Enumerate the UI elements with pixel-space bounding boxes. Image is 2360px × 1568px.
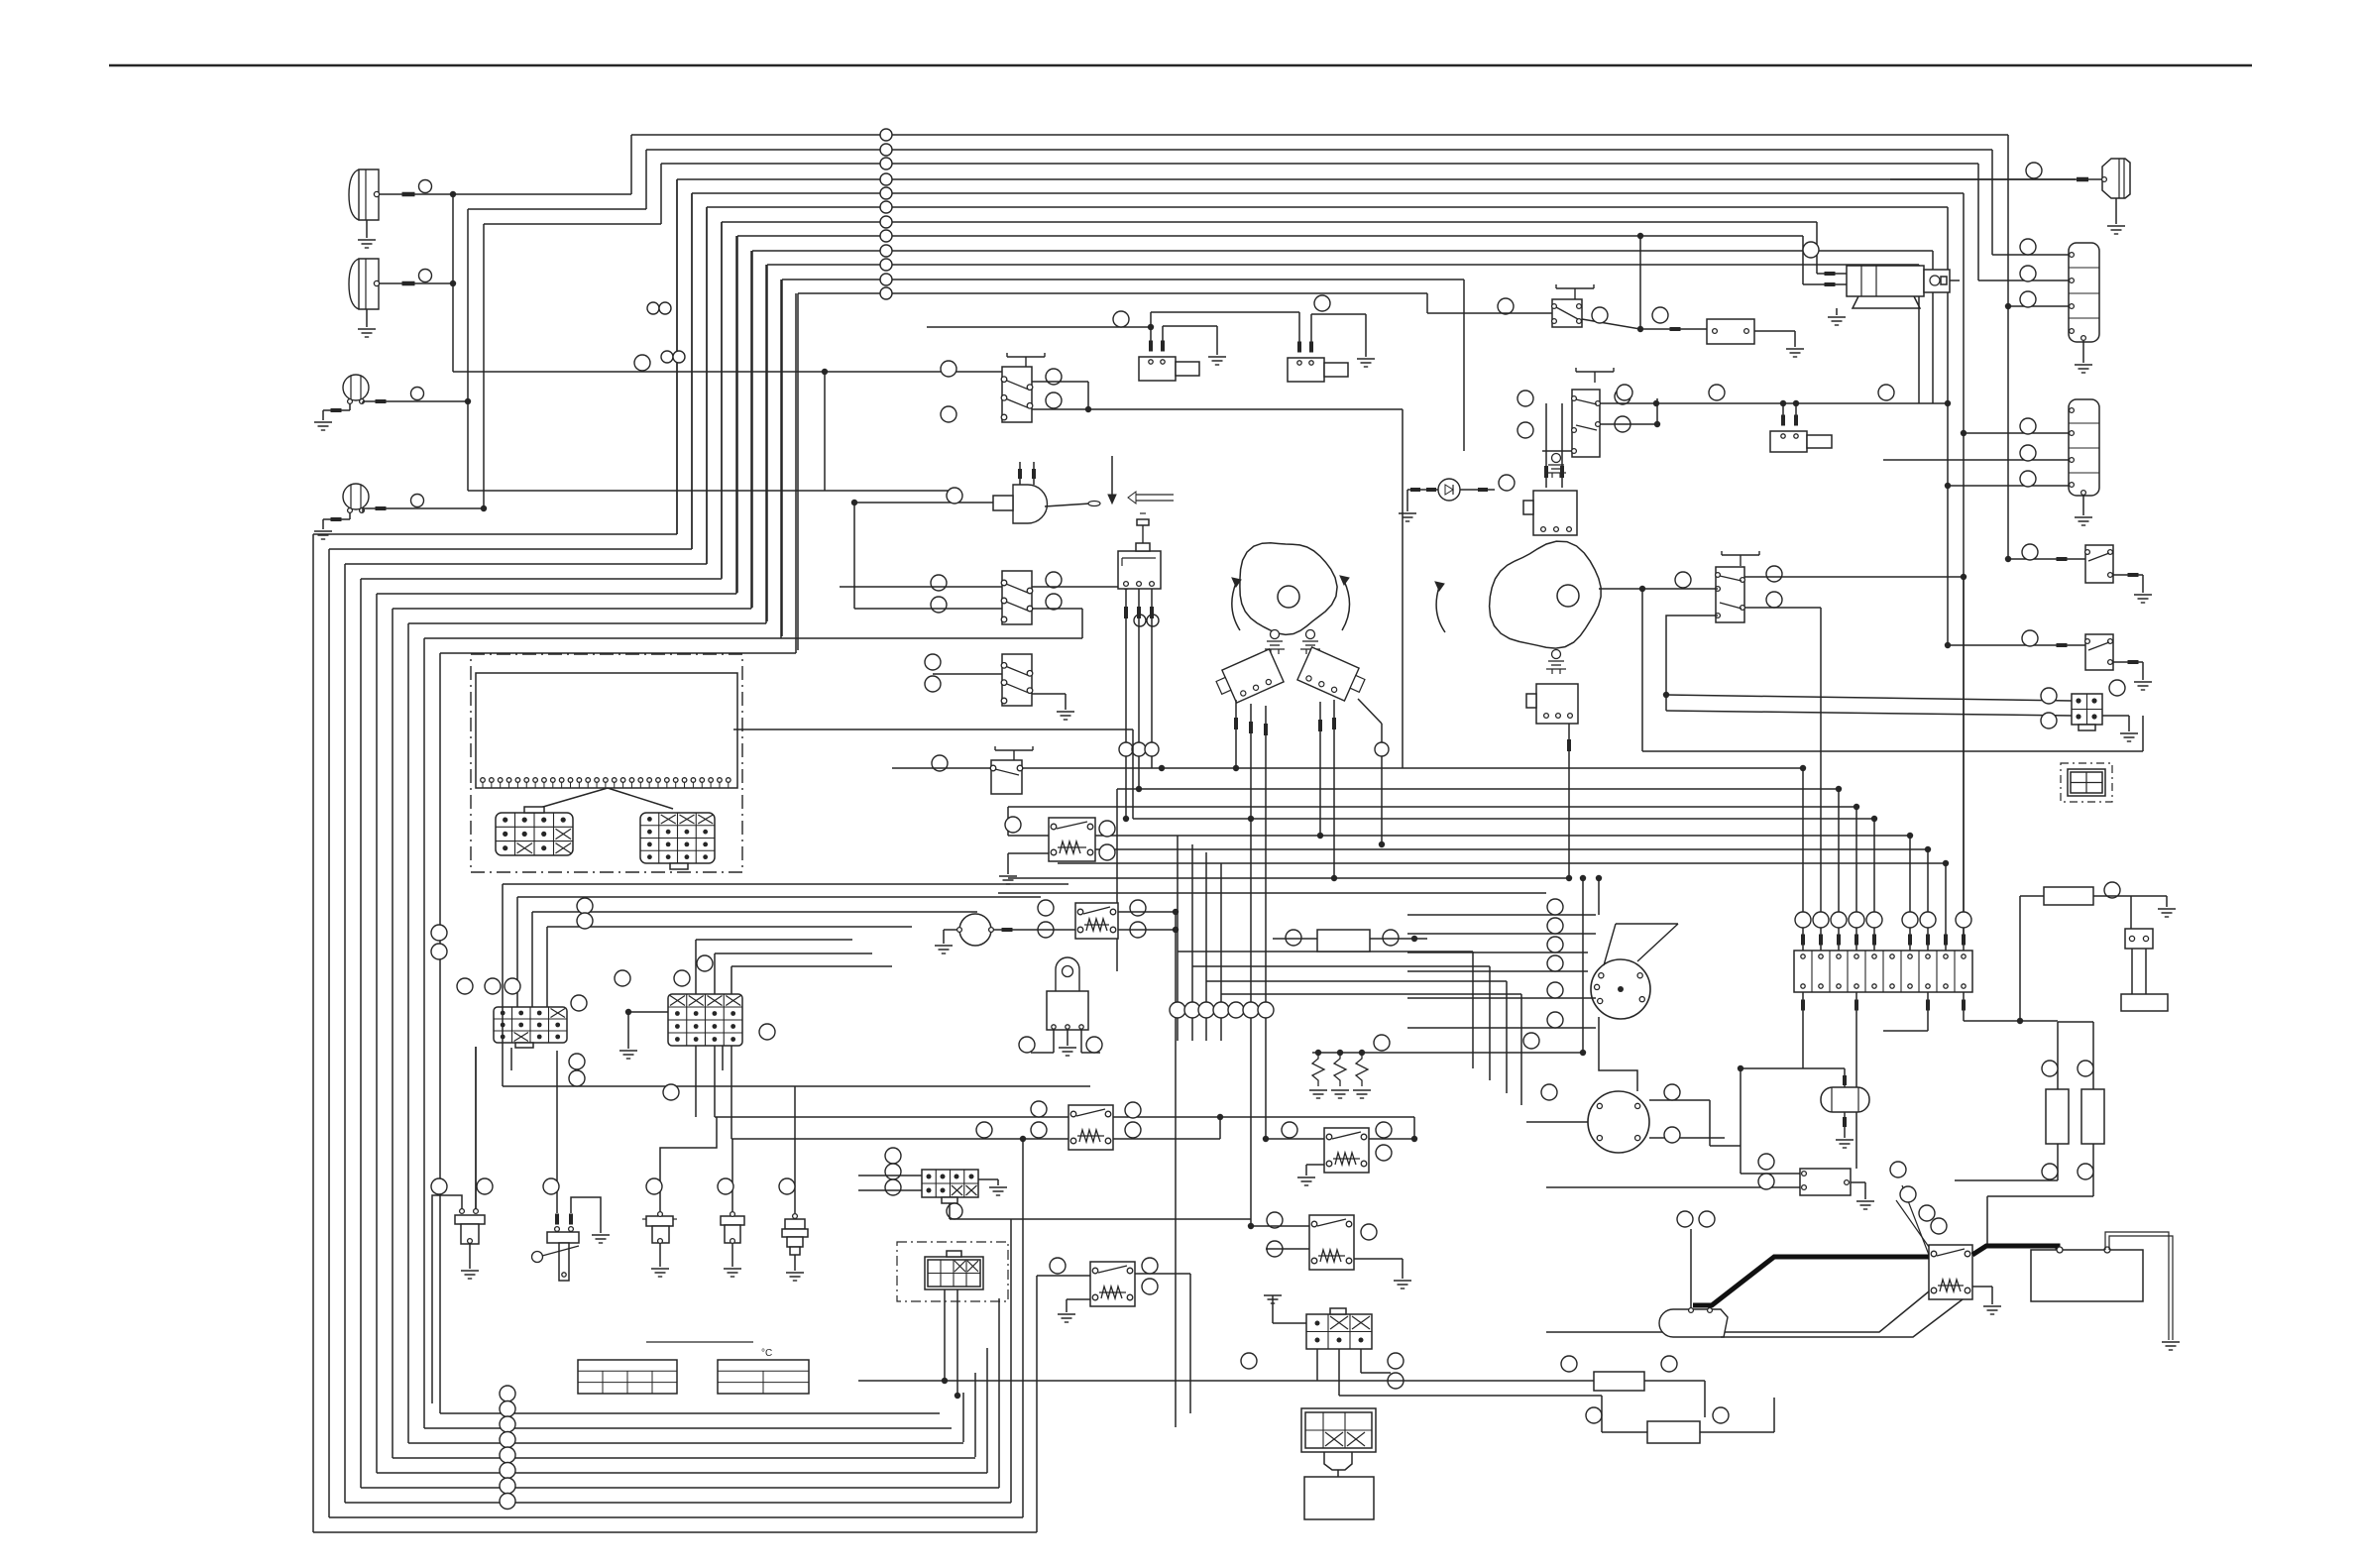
regulator REG [1056, 957, 1079, 991]
battery BAT [2031, 1250, 2143, 1301]
wire grid C tails [510, 1048, 512, 1070]
alternator ALT [1588, 1091, 1649, 1153]
instrument cluster terminal row [482, 782, 484, 788]
wire worklamp feed 1 [468, 208, 646, 210]
wire bottom bundle label circles [500, 1386, 515, 1401]
wire MS1 tails [1125, 589, 1127, 819]
ground CB1 [2082, 341, 2084, 363]
switch SW1 [1007, 356, 1045, 358]
wire KS-T feeds [1545, 403, 1547, 488]
wire work lamp L3 feed [362, 401, 364, 403]
solenoid S2 [1770, 431, 1807, 452]
ground RB [1067, 1298, 1090, 1300]
table T1 [578, 1360, 677, 1394]
wire top bus line 5 [692, 192, 1964, 194]
fuel sender FS [1659, 1309, 1728, 1337]
wire work lamp riser B [483, 224, 485, 508]
ground headlamp L2 [366, 309, 368, 327]
wire grid D tails [695, 1046, 697, 1117]
wire RA coil [1023, 1138, 1068, 1140]
wire B2 left [1741, 1173, 1800, 1175]
wire work lamp L4 feed [362, 508, 364, 512]
ground buzzer [944, 929, 957, 931]
ground CG2 [1264, 1294, 1282, 1296]
wire SW-2G left [1542, 450, 1572, 452]
wire RC left [1266, 1138, 1324, 1140]
relay RA [1068, 1105, 1113, 1150]
resistor R7 [1647, 1421, 1700, 1443]
connector CN-B [640, 813, 715, 863]
thick wire relay to sender [1693, 1257, 1929, 1305]
safety relay RS [1929, 1245, 1972, 1299]
wire left loop 2 [328, 549, 330, 1517]
connector CG2 [1306, 1314, 1372, 1349]
sensor S4 [721, 1216, 744, 1225]
wire headlamp feed [453, 193, 631, 195]
wire fuse to resistor loop [1964, 1020, 2058, 1022]
wire bottom upturn G [962, 1393, 964, 1442]
wire mid bus y886 [1008, 877, 1569, 879]
wire FL feeds [2057, 1022, 2059, 1089]
resistor box RB1 [1317, 930, 1370, 952]
wire label circles column top-center [880, 129, 892, 141]
wire left loop 8 [423, 638, 425, 1428]
ground S1 [469, 1244, 471, 1269]
key switch KS-R [1306, 630, 1315, 639]
wire work lamp riser A [467, 209, 469, 491]
wire mid bus y843 [1008, 835, 1049, 837]
pointer IGN [1616, 923, 1678, 925]
sensor S3 [646, 1216, 673, 1226]
wire KS-R tails [1319, 702, 1321, 836]
wire SW1 right loop [1032, 381, 1088, 383]
coil box B2 [1800, 1169, 1851, 1195]
wire bottom upturn to relay RB left [1036, 1276, 1038, 1532]
ground SOL-A [1162, 326, 1164, 341]
PTO cam plate [1490, 541, 1602, 648]
wire S3G right2 [1744, 607, 1821, 609]
resistor RT3 [1356, 1053, 1368, 1086]
wire RB1 [1273, 938, 1317, 940]
connector block CB1 [2069, 243, 2099, 342]
wire top bus line 6 [707, 206, 1948, 208]
plunger MS1 [1136, 543, 1150, 551]
wire resistor rail [1312, 1052, 1583, 1054]
wire CG tail [949, 1203, 951, 1219]
wire riser mid B [824, 372, 826, 491]
switch SW-2G [1576, 371, 1614, 373]
ground relay RS [1972, 1286, 1992, 1288]
headlamp L2 [349, 259, 379, 309]
wire mid bus y901 [998, 892, 1546, 894]
key switch KS-B [1552, 650, 1561, 659]
wire S3G right1 [1744, 576, 1964, 578]
wire central verticals [1177, 836, 1179, 1041]
wire RA right [1113, 1138, 1220, 1140]
wire KS-L tails [1235, 700, 1237, 768]
arrow lateral [1136, 494, 1174, 496]
instrument cluster body [476, 673, 737, 788]
ground connector CN-D [628, 1011, 668, 1013]
ground S5 [794, 1255, 796, 1271]
wire mid bus y736 [733, 728, 1133, 730]
wire top bus line 10 [767, 264, 1919, 266]
wire RC right [1369, 1138, 1414, 1140]
top rule [109, 64, 2252, 66]
wire bottom upturn F [974, 1373, 976, 1457]
wire left loop 5 [376, 594, 378, 1473]
ground C4 [2102, 715, 2129, 717]
wire top bus line 8 [737, 235, 1803, 237]
wire SW1 long right [1032, 408, 1403, 410]
connector P2 [2125, 929, 2153, 949]
instrument cluster dashed box [471, 654, 742, 872]
micro switch MS1 [1118, 551, 1161, 589]
wire IGN top riser [1598, 878, 1600, 915]
connector CN-A [496, 813, 573, 855]
wire mid bus y857 [1095, 848, 1928, 850]
wire bottom upturn E [986, 1348, 988, 1473]
work lamp L3 [343, 375, 369, 400]
sensor S1 [460, 1209, 465, 1214]
wire cluster area h4 [532, 911, 977, 913]
wire left loop 3 [344, 564, 346, 1503]
wire ALT right [1649, 1099, 1710, 1101]
wire R6 right [1644, 1380, 1705, 1382]
wire mid bus y814 [1008, 806, 1856, 808]
wire RF left [993, 929, 1075, 931]
wire cluster fanout [536, 788, 608, 809]
switch SWR1 [2085, 545, 2113, 583]
diode D1 [1438, 479, 1460, 501]
resistor R6 [1594, 1372, 1644, 1391]
svg-text:°C: °C [761, 1348, 772, 1359]
wire bottom upturn D [998, 1298, 1000, 1488]
wire CB2 pins [1964, 432, 2069, 434]
key switch KS-L [1271, 630, 1280, 639]
wire M1 feeds [1817, 273, 1847, 275]
relay RD [1309, 1215, 1354, 1270]
solenoid SOL-A [1139, 357, 1176, 381]
wire hop circles mid [647, 302, 659, 314]
solenoid SOL-B [1288, 358, 1324, 382]
wire top bus line 1 [631, 134, 2008, 136]
wire CG left [858, 1175, 922, 1176]
wire sender loop [1721, 1299, 1963, 1337]
wire P2 legs [2131, 949, 2133, 994]
wire riser x1655 [1639, 236, 1641, 329]
wire SW2 left [840, 586, 1002, 588]
connector CN-C [494, 1007, 567, 1043]
wire IGN fan [1407, 914, 1596, 916]
wire REG tails [1053, 1030, 1055, 1053]
wire KS-B tails [1568, 724, 1570, 878]
wire mid staircase down [1178, 951, 1473, 952]
ground S3 [659, 1244, 661, 1267]
connector block CB2 [2069, 399, 2099, 496]
key switch KS-T [1552, 454, 1561, 463]
wire riser mid A [468, 490, 952, 492]
wire left loop 6 [392, 609, 393, 1458]
wire cluster area h1 [503, 883, 1068, 885]
wire horn top stubs [1019, 462, 1021, 485]
wire top bus line 3 [661, 163, 1978, 165]
wire left loop 7 [407, 623, 409, 1443]
ground SW3 [1032, 693, 1066, 695]
wire bus y1127 [715, 1116, 1414, 1118]
sensor S5 [785, 1219, 805, 1229]
wire DB tails [944, 1289, 946, 1381]
wire headlamp junction vertical [452, 194, 454, 372]
wire S4 feed [731, 1139, 733, 1211]
table T2 [718, 1360, 809, 1394]
wire C4 bottom loop [1641, 589, 1643, 751]
pointer RS [1896, 1200, 1929, 1247]
wire SW-TC left [1427, 312, 1552, 314]
ground FB1 [1754, 330, 1795, 332]
wire RD left [1251, 1225, 1309, 1227]
wire CG2 tails [1316, 1349, 1318, 1381]
resistor RT1 [1312, 1053, 1324, 1086]
wire to connector C4 pin3 [1666, 711, 2072, 716]
switch SW3 [1002, 654, 1032, 706]
ground RC [1306, 1164, 1324, 1166]
fuse label circles [1795, 912, 1811, 928]
wire cluster area riser1 [502, 884, 504, 1086]
wire IGN bottom [1599, 1017, 1637, 1091]
wire SOL-A feeds [1150, 312, 1152, 341]
fusible link FL1 [2046, 1089, 2069, 1144]
wire mid bus y871 [1058, 862, 1946, 864]
wire lamp bus to switch bank [453, 371, 1002, 373]
thick wire battery to relay [1972, 1246, 2058, 1255]
ground CG [978, 1178, 998, 1180]
wire top bus line 7 [722, 221, 1817, 223]
connector C4 [2072, 694, 2102, 725]
switch SW-TC [1556, 287, 1594, 289]
wire S3G left [1599, 588, 1718, 590]
horn H1 [1013, 485, 1048, 523]
wire cluster area h2 [503, 1085, 1090, 1087]
relay RF [1075, 903, 1118, 939]
wire R5 right [2093, 895, 2167, 897]
relay RE [1049, 818, 1095, 861]
wire SOL-B feeds [1298, 312, 1300, 342]
wire sender sense [1690, 1229, 1692, 1308]
wire top bus line 9 [752, 250, 1933, 252]
wire top bus line 12 [798, 292, 1427, 294]
fusible link FL2 [2081, 1089, 2104, 1144]
wire mid bus y796 [1117, 788, 1839, 790]
wire horn risers [839, 586, 841, 588]
wire cluster area h5 [547, 926, 912, 928]
ground headlamp L1 [366, 220, 368, 238]
ground B2 [1851, 1181, 1865, 1183]
buzzer BZ [959, 914, 991, 946]
window connector W1 [2061, 763, 2112, 802]
sensor S2 fuel lever [547, 1232, 579, 1243]
wire SWR1 [2008, 558, 2085, 560]
wire grid D feeds [695, 940, 697, 994]
wire top bus line 4 [677, 178, 2076, 180]
wire diode D1 [1407, 489, 1438, 491]
connector CB-bottom [1301, 1408, 1376, 1452]
pedestal [2121, 994, 2168, 1011]
wire bottom upturn C [1010, 1219, 1012, 1503]
wire S5 feed [794, 1086, 796, 1213]
wire mid bus y775 [1022, 767, 1803, 769]
wire left loop 9 [439, 653, 441, 1413]
wire bus y1149 [731, 1138, 1023, 1140]
wire bottom upturn to relay RA coil [1022, 1139, 1024, 1517]
wire cluster area h3 [517, 896, 1041, 898]
switch SW4 [995, 749, 1033, 751]
wire condenser ground [1844, 1112, 1846, 1138]
work lamp L4 [343, 484, 369, 509]
wire RS lower left [1546, 1291, 1929, 1332]
wire bus y1393 [858, 1380, 1594, 1382]
wire horn feed [854, 502, 993, 504]
wire left loop 1 [312, 534, 314, 1532]
wire R7 [1601, 1396, 1603, 1432]
headlamp L1 [349, 169, 379, 220]
battery ground wire [2105, 1232, 2173, 1340]
wire CB1 pins [1992, 254, 2069, 256]
wire ALT left [1526, 1121, 1588, 1123]
connector CG [922, 1170, 978, 1197]
ground M1 [1836, 308, 1838, 315]
switch S3G [1722, 554, 1759, 556]
arrow arc PTO [1436, 587, 1445, 632]
ground RE [1008, 852, 1049, 854]
box BB [1304, 1477, 1374, 1519]
resistor R5 [2044, 887, 2093, 905]
wire bottom upturn to relay RF [1175, 912, 1177, 1427]
arrow down [1111, 456, 1113, 496]
wire bus y1408 [1339, 1395, 1602, 1397]
arrow arc left [1232, 583, 1240, 630]
relay RB [1090, 1262, 1135, 1306]
wire mid bus y826 [1133, 818, 1874, 820]
wire SW2 right [1032, 586, 1126, 588]
ground CB2 [2082, 496, 2084, 515]
connector CN-E [925, 1257, 983, 1289]
wire worklamp feed 2 [484, 223, 661, 225]
wire RF right [1118, 911, 1176, 913]
connector CN-D [668, 994, 742, 1046]
cluster area label circles [577, 898, 593, 914]
ground S4 [731, 1244, 733, 1267]
wire top bus line 2 [646, 149, 1992, 151]
ignition switch IGN [1591, 959, 1650, 1019]
wire top bus line 11 [782, 279, 1464, 280]
wire left loop 4 [360, 579, 362, 1488]
wire to connector C4 pin1 [1666, 695, 2072, 701]
wire fuse bottom tails [1802, 992, 1804, 1068]
dashed box DB [897, 1242, 1008, 1301]
rule tables [646, 1341, 753, 1343]
wire S1 feeds [432, 1195, 462, 1403]
wire SWR2 [1948, 644, 2085, 646]
shift cam plate [1240, 543, 1337, 635]
wire SW-2G right1 [1600, 402, 1948, 404]
wire SW3 left [933, 673, 1002, 675]
ground tail lamp R1 [2115, 198, 2117, 224]
arrow arc right [1342, 581, 1350, 630]
fuse FB1 [1707, 319, 1754, 344]
wire S2 feeds [556, 1051, 558, 1213]
switch SWR2 [2085, 634, 2113, 670]
wire condenser top [1844, 1075, 1846, 1087]
wire bottom upturn to relay RD right [1189, 1274, 1191, 1413]
wire tail lamp R1 [2077, 177, 2088, 182]
condenser C1 [1821, 1087, 1869, 1112]
wire S3G bottom loop [1666, 616, 1718, 711]
wire SW-TC right [1582, 319, 1640, 329]
tail lamp R1 [2102, 159, 2130, 198]
ground work lamp L4 [349, 512, 351, 519]
fuse box FB2 [1794, 951, 1972, 992]
relay RC [1324, 1128, 1369, 1173]
starter motor M1 [1847, 266, 1924, 296]
ground RD [1354, 1258, 1403, 1260]
ground work lamp L3 [349, 403, 351, 410]
ground SOL-B [1310, 314, 1312, 342]
wire S3 feed [660, 1117, 717, 1211]
switch SW2 [1002, 571, 1032, 624]
wire central vertical circles [1170, 1002, 1185, 1018]
wire CB stem [1337, 1470, 1339, 1477]
resistor RT2 [1334, 1053, 1346, 1086]
wire SW4 feed [892, 767, 991, 769]
wire FL tails [2057, 1144, 2059, 1180]
wire fuse feeds [1802, 768, 1804, 951]
wire SW-2G right2 [1600, 423, 1657, 425]
